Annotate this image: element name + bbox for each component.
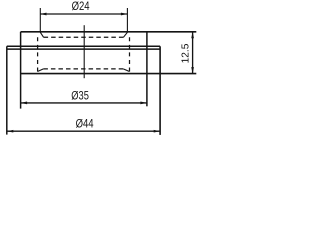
Ø44 right arrow <box>154 130 161 133</box>
hidden bore bottom horizontal (dashed) <box>43 68 123 70</box>
Ø35 right arrow <box>140 102 147 105</box>
top-right chamfer diagonal <box>123 32 127 37</box>
hidden bore right vertical (dashed) <box>129 37 131 71</box>
right edge Ø35 (extends to Ø35 dim) <box>146 32 148 107</box>
Ø35 left arrow <box>21 102 28 105</box>
12.5 dimension line <box>192 32 194 74</box>
svg-text:Ø35: Ø35 <box>71 89 89 103</box>
Ø44 left arrow <box>7 130 14 133</box>
12.5 top arrow <box>191 32 194 39</box>
Ø24 left arrow <box>40 13 46 16</box>
right outer edge Ø44 (extends to Ø44 dim) <box>159 46 161 135</box>
left edge Ø35 (extends to Ø35 dim) <box>20 32 22 109</box>
bottom-left chamfer diagonal <box>38 69 44 72</box>
flange top edge Ø44 <box>7 45 160 47</box>
Ø35 dimension line <box>21 102 147 104</box>
top-left chamfer diagonal <box>40 32 43 37</box>
hidden bore top horizontal (dashed) <box>44 36 124 38</box>
bottom edge (also extension line for 12.5 dim) <box>21 73 197 75</box>
Ø24 right arrow <box>121 13 128 16</box>
svg-text:12.5: 12.5 <box>180 43 191 63</box>
top edge of Ø35 section (also extension line for 12.5 dim) <box>21 31 197 33</box>
flange chamfer edge line <box>7 48 160 50</box>
bottom-right chamfer diagonal <box>123 69 129 72</box>
Ø44 dimension line <box>7 130 160 132</box>
Ø24 left extension line <box>39 8 41 32</box>
left outer edge Ø44 (extends to Ø44 dim) <box>6 46 8 134</box>
hidden bore left vertical (dashed) <box>37 37 39 71</box>
svg-text:Ø44: Ø44 <box>76 117 94 131</box>
svg-text:Ø24: Ø24 <box>72 0 90 13</box>
12.5 bottom arrow <box>191 67 194 74</box>
Ø24 dimension line <box>40 13 127 15</box>
vertical centerline <box>83 25 85 78</box>
Ø24 right extension line <box>126 8 128 32</box>
